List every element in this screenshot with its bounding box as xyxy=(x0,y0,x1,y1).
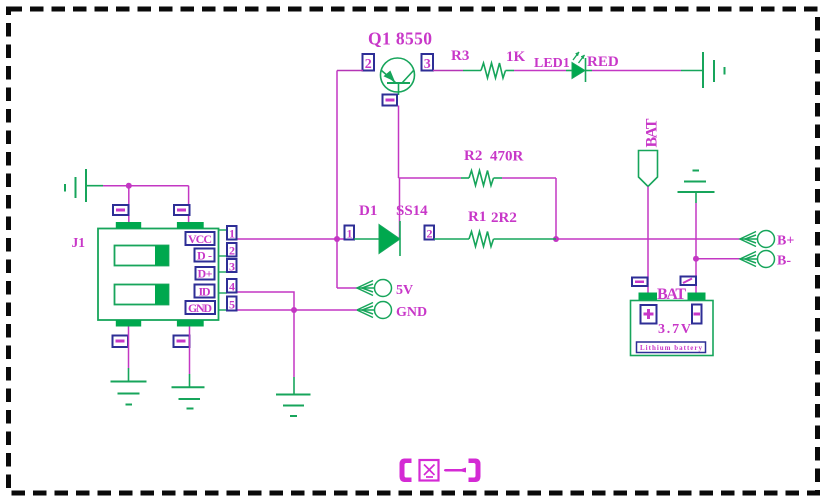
wire R2 to right xyxy=(502,177,556,179)
node junction VCC/5V xyxy=(334,236,340,242)
wire LED1 to ground xyxy=(592,70,681,72)
wire Q1 pin2 to left xyxy=(337,70,363,72)
pin 2 of BAT1 xyxy=(681,277,697,286)
wire green stub ground 2 xyxy=(189,374,191,387)
svg-text:Lithium battery: Lithium battery xyxy=(640,344,703,352)
caption left bracket xyxy=(400,459,412,483)
svg-text:RED: RED xyxy=(587,54,619,70)
pin 2 of Q1 xyxy=(363,54,375,72)
transistor Q1 xyxy=(381,58,415,95)
J1 pin name D- xyxy=(195,249,215,263)
svg-text:BAT: BAT xyxy=(644,118,661,147)
svg-text:4: 4 xyxy=(229,280,235,294)
battery type label box xyxy=(637,342,706,353)
wire J1 mount left to ground 1 xyxy=(128,327,130,369)
resistor R3 xyxy=(463,63,514,78)
pin 4 of J1 xyxy=(227,279,237,294)
node junction shell ground xyxy=(126,183,132,189)
wire rail to B+ xyxy=(556,238,740,240)
node junction R2/R1 xyxy=(553,236,559,242)
svg-text:B-: B- xyxy=(777,254,791,269)
caption character yi (one) xyxy=(444,468,466,473)
J1 pin name GND xyxy=(186,301,216,315)
svg-text:2: 2 xyxy=(365,57,372,72)
wire Q1 pin3 to R3 xyxy=(433,70,463,72)
connector J1 body xyxy=(98,229,219,321)
wire to 5V connector xyxy=(337,287,357,289)
pin 2 of D1 xyxy=(425,226,435,241)
ground inverted (battery negative) xyxy=(678,171,715,204)
svg-text:R1: R1 xyxy=(468,209,486,225)
svg-text:J1: J1 xyxy=(72,235,86,250)
wire green stub to ground 3 xyxy=(293,377,295,395)
battery positive mark xyxy=(641,305,657,324)
svg-text:R3: R3 xyxy=(451,48,469,64)
svg-text:3: 3 xyxy=(229,260,235,274)
ground right-facing xyxy=(703,52,725,88)
wire ground to battery negative xyxy=(695,203,697,293)
wire base node to R2 xyxy=(399,177,462,179)
connector B+ xyxy=(740,231,775,248)
pin 9 of J1 (mount) xyxy=(174,336,190,348)
svg-text:ID: ID xyxy=(199,285,211,299)
pin 6 of J1 (shell) xyxy=(113,205,129,215)
connector J1 top tab left xyxy=(116,222,141,229)
svg-text:GND: GND xyxy=(396,305,427,320)
wire USB pin1 to D1 xyxy=(237,238,346,240)
battery terminal tab negative xyxy=(688,293,706,301)
caption right bracket xyxy=(469,459,481,483)
J1 pin name VCC xyxy=(186,232,215,246)
svg-text:LED1: LED1 xyxy=(534,56,570,71)
wire base node down to D1 cathode xyxy=(399,178,401,239)
pin 2 of J1 xyxy=(227,243,237,258)
pin 1 of BAT1 xyxy=(632,278,648,287)
svg-text:2: 2 xyxy=(229,244,235,258)
connector J1 bottom tab left xyxy=(116,320,141,327)
connector GND xyxy=(357,302,392,319)
battery negative mark xyxy=(692,305,702,324)
svg-text:1: 1 xyxy=(229,227,235,241)
connector J1 bottom tab right xyxy=(177,320,204,327)
battery terminal tab positive xyxy=(639,293,658,301)
svg-text:D-: D- xyxy=(197,249,212,263)
ground 1 xyxy=(111,382,147,405)
pin 1 of Q1 xyxy=(383,95,398,106)
ground left-facing (USB shell) xyxy=(65,169,103,202)
pin 1 of D1 xyxy=(345,226,355,241)
svg-text:SS14: SS14 xyxy=(396,203,428,219)
ground 2 xyxy=(172,387,205,408)
J1 pin stubs xyxy=(219,230,228,310)
resistor R2 xyxy=(461,171,502,186)
wire shell ground horizontal xyxy=(103,185,189,187)
wire shell drop right xyxy=(188,186,190,223)
wire green stub ground 1 xyxy=(128,368,130,382)
svg-text:VCC: VCC xyxy=(188,232,212,246)
connector J1 contact slot lower xyxy=(115,285,169,305)
wire BAT to battery positive xyxy=(647,187,649,293)
connector J1 contact slot upper xyxy=(115,246,169,266)
svg-text:B+: B+ xyxy=(777,234,794,249)
pin 8 of J1 (mount) xyxy=(113,336,129,348)
J1 pin name D+ xyxy=(196,267,215,281)
svg-text:2: 2 xyxy=(427,227,433,241)
wire USB pin4 xyxy=(237,292,295,377)
wire green stub to right ground xyxy=(681,70,703,72)
svg-text:1: 1 xyxy=(347,227,353,241)
wire R2 down to rail xyxy=(555,178,557,239)
J1 pin name ID xyxy=(195,285,215,299)
wire B- xyxy=(696,258,740,260)
svg-text:Q1 8550: Q1 8550 xyxy=(368,29,432,49)
pin 3 of J1 xyxy=(227,259,237,274)
diode D1 xyxy=(354,221,400,256)
pin 7 of J1 (shell) xyxy=(174,205,190,215)
pin 1 of J1 xyxy=(227,226,237,241)
power port BAT flag xyxy=(639,151,658,187)
connector J1 top tab right xyxy=(177,222,204,229)
battery BAT1 body xyxy=(631,301,714,356)
node junction B- xyxy=(693,256,699,262)
wire USB pin5 to GND connector xyxy=(237,309,358,311)
node junction pin4/pin5 xyxy=(291,307,297,313)
svg-text:D1: D1 xyxy=(359,203,377,219)
svg-text:2R2: 2R2 xyxy=(491,210,517,226)
pin 5 of J1 xyxy=(227,297,237,312)
wire vertical base-left net xyxy=(336,71,338,289)
resistor R1 xyxy=(434,232,556,247)
wire R3 to LED1 xyxy=(514,70,566,72)
connector 5V xyxy=(357,280,392,297)
ground 3 xyxy=(276,395,311,417)
diode LED1 xyxy=(566,52,592,82)
svg-text:5V: 5V xyxy=(396,283,413,298)
svg-text:1K: 1K xyxy=(506,49,526,65)
caption character tu (figure) xyxy=(420,460,439,481)
svg-text:5: 5 xyxy=(229,298,235,312)
svg-text:3: 3 xyxy=(424,57,431,72)
svg-text:470R: 470R xyxy=(490,149,524,165)
wire shell drop left xyxy=(128,186,130,223)
svg-text:R2: R2 xyxy=(464,148,482,164)
wire J1 mount right to ground 2 xyxy=(189,327,191,375)
svg-text:3.7V: 3.7V xyxy=(658,322,691,337)
svg-text:D+: D+ xyxy=(198,267,213,281)
svg-text:GND: GND xyxy=(188,301,212,315)
pin 3 of Q1 xyxy=(422,54,434,72)
wire Q1 base stem down xyxy=(398,106,400,179)
connector B- xyxy=(740,251,775,268)
